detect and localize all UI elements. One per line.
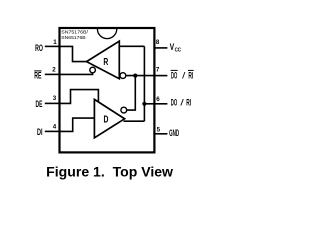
pin 8 stub <box>153 47 167 49</box>
wire pin2 to RE bubble <box>60 73 93 75</box>
junction dot pin6 <box>142 102 146 106</box>
bus wire (pin6 net) <box>143 46 145 121</box>
svg-text:DI: DI <box>37 127 43 138</box>
svg-text:3: 3 <box>53 95 57 102</box>
svg-text:RI: RI <box>188 71 193 82</box>
svg-text:RI: RI <box>186 98 191 109</box>
pin 6 stub <box>153 103 167 105</box>
svg-text:RO: RO <box>35 43 43 54</box>
svg-text:R: R <box>103 57 108 68</box>
pin-1 notch <box>97 29 116 39</box>
svg-text:RE: RE <box>34 70 42 81</box>
driver inverting output bubble <box>121 107 127 113</box>
svg-text:7: 7 <box>156 67 160 74</box>
svg-text:GND: GND <box>169 128 179 139</box>
wire pin3 to driver enable <box>60 90 98 104</box>
pin 7 stub <box>153 75 167 77</box>
junction dot pin7 branch <box>133 74 137 78</box>
svg-text:8: 8 <box>156 39 160 46</box>
wire R non-inverting input to bus <box>119 45 144 47</box>
op-amp D (driver) <box>94 99 124 137</box>
R inverting input bubble <box>120 73 126 79</box>
svg-text:Figure 1. Top View: Figure 1. Top View <box>46 164 173 180</box>
wire pin7 line <box>126 75 154 77</box>
svg-text:DO: DO <box>171 98 178 109</box>
svg-text:SN65176B: SN65176B <box>61 35 85 40</box>
pin 3 stub <box>45 102 61 104</box>
svg-text:DO: DO <box>171 71 178 82</box>
wire pin4 to driver input <box>60 118 94 131</box>
svg-text:SN75176B/: SN75176B/ <box>61 29 88 34</box>
svg-text:1: 1 <box>53 39 57 46</box>
RE enable bubble <box>90 67 96 73</box>
pin 1 stub <box>45 45 61 47</box>
svg-text:CC: CC <box>175 48 182 54</box>
wire pin1 to receiver output <box>60 46 87 61</box>
pin 2 stub <box>45 73 61 75</box>
svg-text:4: 4 <box>53 124 57 131</box>
op-amp R (receiver) <box>87 41 120 78</box>
wire driver output to bus <box>124 120 145 122</box>
svg-text:DE: DE <box>36 99 43 110</box>
pin 5 stub <box>153 133 167 135</box>
svg-text:6: 6 <box>156 96 160 103</box>
wire pin6 <box>144 103 153 105</box>
svg-text:/: / <box>180 98 184 109</box>
svg-text:D: D <box>104 114 109 125</box>
svg-text:5: 5 <box>157 127 161 134</box>
IC package body U1 <box>60 28 155 152</box>
svg-text:2: 2 <box>52 67 56 74</box>
wire pin7 junction down to driver inverting output <box>127 76 136 111</box>
svg-text:/: / <box>182 71 186 82</box>
pin 4 stub <box>45 130 61 132</box>
